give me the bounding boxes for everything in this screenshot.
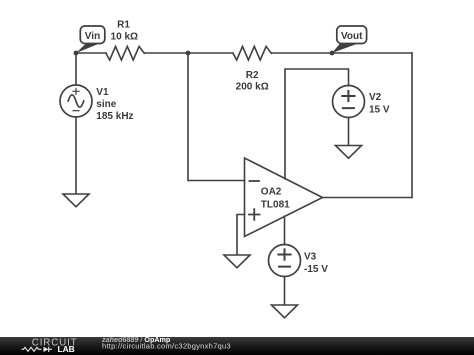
op-amp OA2	[245, 158, 323, 237]
ground (below V2)	[336, 146, 362, 159]
wire non-inverting input to ground	[237, 215, 245, 256]
svg-text:R2: R2	[246, 70, 259, 81]
flag label Vin	[76, 26, 105, 53]
svg-text:TL081: TL081	[261, 200, 290, 211]
wire inverting feedback branch (junction down and right to - input)	[188, 53, 245, 181]
ground (below V1)	[63, 194, 89, 207]
svg-text:V3: V3	[304, 251, 317, 262]
node Vin junction dot	[74, 51, 79, 56]
CircuitLab logo	[22, 337, 78, 354]
ground (at non-inverting input)	[224, 255, 250, 268]
svg-text:LAB: LAB	[58, 344, 75, 354]
svg-text:V1: V1	[96, 87, 109, 98]
svg-text:15 V: 15 V	[369, 104, 390, 115]
wire V3 bottom lead	[284, 277, 286, 306]
node Vout junction dot	[330, 51, 335, 56]
voltage source V3 (-15 V)	[269, 245, 301, 277]
wire V+ supply loop	[285, 69, 349, 179]
footer bar	[0, 337, 474, 355]
svg-text:-15 V: -15 V	[304, 264, 328, 275]
resistor R2	[233, 46, 271, 60]
svg-text:10 kΩ: 10 kΩ	[111, 32, 138, 43]
svg-text:http://circuitlab.com/c32bgynx: http://circuitlab.com/c32bgynxh7qu3	[102, 342, 231, 351]
node feedback junction dot	[186, 51, 191, 56]
resistor R1	[106, 46, 144, 60]
wire R2 to right corner (through Vout node)	[271, 52, 412, 54]
wire V1 bottom lead	[75, 117, 77, 194]
wire V2 bottom lead	[348, 118, 350, 146]
svg-text:200 kΩ: 200 kΩ	[236, 81, 269, 92]
wire right vertical (Vout to op-amp output)	[411, 53, 413, 198]
wire V- pin to V3	[284, 216, 286, 244]
svg-text:R1: R1	[117, 19, 130, 30]
voltage source V2 (+15 V)	[333, 86, 365, 118]
ground (below V3)	[272, 305, 298, 318]
wire top left (Vin node to R1)	[76, 52, 106, 54]
wire R1 to junction	[144, 52, 188, 54]
flag label Vout	[332, 26, 367, 53]
svg-text:OA2: OA2	[261, 186, 282, 197]
svg-text:Vin: Vin	[85, 31, 100, 42]
svg-text:Vout: Vout	[341, 31, 363, 42]
wire junction to R2	[188, 52, 233, 54]
svg-text:185 kHz: 185 kHz	[96, 111, 133, 122]
wire op-amp output	[323, 197, 413, 199]
svg-text:sine: sine	[96, 99, 116, 110]
voltage source V1 (sine)	[60, 85, 92, 117]
svg-text:V2: V2	[369, 92, 382, 103]
wire V1 top lead	[75, 53, 77, 85]
